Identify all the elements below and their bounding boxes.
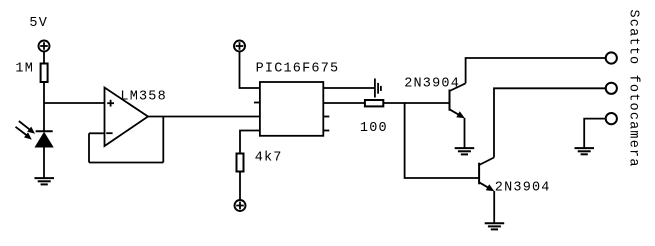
feedback wire (bottom) xyxy=(89,162,163,164)
wire R3 to power xyxy=(239,172,241,201)
wire PIC right pin 1 to ground xyxy=(323,87,375,89)
svg-text:LM358: LM358 xyxy=(120,90,167,105)
resistor R2 100 xyxy=(365,100,383,106)
ground (terminal 3) xyxy=(575,148,595,154)
resistor R1 1M xyxy=(41,64,48,83)
wire Q1 collector up xyxy=(466,58,606,83)
terminal circle 2 xyxy=(606,83,617,94)
pin stub PIC left 2 xyxy=(254,102,260,104)
wire PIC pin 4 to R3 xyxy=(240,131,260,154)
svg-text:5V: 5V xyxy=(29,16,48,31)
wire junction down to Q2 base xyxy=(405,103,480,178)
ground (Q1 emitter) xyxy=(455,148,475,154)
wire terminal 3 to ground xyxy=(584,119,606,149)
pin stub PIC right 3 xyxy=(323,116,329,118)
wire Q1 emitter to ground xyxy=(464,118,466,148)
ground (photodiode) xyxy=(35,178,55,184)
IC PIC16F675 xyxy=(260,82,323,136)
power symbol 5V (top left) xyxy=(39,41,50,52)
svg-text:Scatto fotocamera: Scatto fotocamera xyxy=(626,10,641,168)
wire photodiode to ground xyxy=(43,147,45,179)
wire R1 to photodiode xyxy=(43,82,45,131)
svg-text:1M: 1M xyxy=(15,62,34,77)
svg-text:4k7: 4k7 xyxy=(255,151,283,166)
photodiode D1 xyxy=(36,131,53,147)
terminal circle 1 xyxy=(606,52,617,63)
light arrow 2 xyxy=(16,127,32,140)
op-amp U1 LM358 xyxy=(105,88,149,147)
ground (rotated, right of PIC) xyxy=(375,79,381,98)
wire op-amp - input xyxy=(89,132,105,134)
light arrow 1 xyxy=(19,121,35,134)
wire power to R1 xyxy=(43,51,45,63)
svg-text:PIC16F675: PIC16F675 xyxy=(256,62,340,77)
wire node to op-amp + input xyxy=(44,102,105,104)
wire power to PIC pin 1 xyxy=(240,51,260,88)
svg-text:2N3904: 2N3904 xyxy=(495,181,551,196)
transistor Q1 2N3904 xyxy=(450,83,466,118)
resistor R3 4k7 xyxy=(237,154,244,172)
terminal circle 3 xyxy=(606,113,617,124)
wire Q2 emitter to ground xyxy=(493,191,495,223)
pin stub PIC right 4 xyxy=(323,130,329,132)
power symbol (PIC top) xyxy=(234,41,245,52)
svg-text:100: 100 xyxy=(360,121,388,136)
wire PIC right pin 2 to R2 xyxy=(323,102,365,104)
wire R2 to Q1 base xyxy=(383,102,449,104)
wire Q2 collector up xyxy=(494,88,606,157)
wire op-amp output to PIC xyxy=(148,116,260,118)
power symbol (below 4k7) xyxy=(235,200,246,211)
ground (Q2 emitter) xyxy=(485,223,505,229)
transistor Q2 2N3904 xyxy=(479,158,494,192)
feedback wire (left down) xyxy=(88,133,90,162)
feedback wire (up to output) xyxy=(162,117,164,163)
